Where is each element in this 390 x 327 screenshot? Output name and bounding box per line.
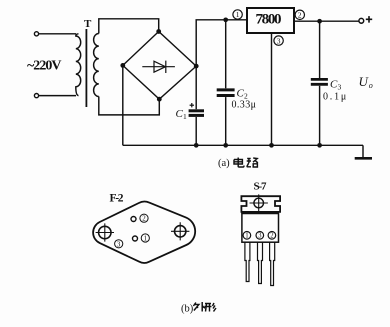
transformer T core bbox=[85, 29, 87, 107]
hanzi lu (road) bbox=[247, 158, 258, 167]
value label 0.33u bbox=[232, 100, 257, 111]
F-2 right mounting hole bbox=[175, 226, 186, 237]
wire: secondary bottom to bridge bottom corner bbox=[99, 97, 160, 115]
S-7 tab mounting hole bbox=[254, 198, 264, 208]
junction: pin3 on rail bbox=[269, 143, 274, 148]
wire: input bottom to primary bbox=[39, 95, 76, 97]
svg-text:F-2: F-2 bbox=[110, 192, 124, 204]
F-2 pin 1 label bbox=[141, 234, 149, 242]
terminal: output + bbox=[359, 18, 364, 23]
package S-7 tab outline (TO-220) bbox=[241, 196, 280, 212]
svg-text:3: 3 bbox=[258, 233, 262, 240]
svg-text:2: 2 bbox=[298, 11, 302, 20]
wire: 7800 pin 3 down to ground rail bbox=[271, 33, 273, 145]
terminal: AC input top bbox=[34, 32, 38, 36]
wire: bridge right corner (DC+) up and right to 7800 pin 1 bbox=[196, 20, 247, 66]
capacitor C1 (electrolytic) bbox=[195, 66, 197, 109]
label C1 bbox=[176, 108, 184, 120]
diode inside bridge bbox=[142, 61, 175, 73]
svg-text:3: 3 bbox=[117, 240, 121, 248]
bridge rectifier outline bbox=[123, 32, 196, 100]
F-2 pin 1 lead bbox=[133, 236, 138, 241]
junction: C2 on rail bbox=[223, 143, 228, 148]
wire: bridge left corner (DC-) down to ground rail bbox=[122, 65, 124, 145]
package S-7 label bbox=[254, 180, 268, 192]
pin 1 label of 7800 bbox=[233, 10, 242, 19]
junction: C3 tap on output bbox=[317, 19, 322, 24]
ground symbol bbox=[362, 145, 364, 157]
F-2 pin 3 label (case) bbox=[115, 240, 123, 248]
svg-text:(a): (a) bbox=[218, 158, 230, 169]
svg-text:2: 2 bbox=[270, 233, 274, 240]
svg-text:S-7: S-7 bbox=[254, 180, 268, 192]
F-2 left mounting hole bbox=[99, 226, 111, 238]
capacitor C3 bbox=[319, 21, 321, 78]
label: T bbox=[84, 18, 92, 30]
pin 2 label of 7800 bbox=[295, 10, 304, 19]
S-7 pin 1 label bbox=[243, 232, 251, 240]
value label 0.1u bbox=[323, 91, 348, 102]
svg-text:1: 1 bbox=[236, 10, 240, 19]
svg-text:3: 3 bbox=[277, 36, 281, 45]
svg-text:0.33μ: 0.33μ bbox=[232, 100, 257, 111]
hanzi dian (electric) bbox=[234, 158, 244, 168]
svg-text:1: 1 bbox=[245, 233, 248, 240]
label C3 bbox=[330, 79, 338, 91]
junction: bridge bottom corner bbox=[157, 97, 162, 102]
hanzi xing (shape) bbox=[205, 303, 217, 312]
package F-2 outline (TO-3) bbox=[93, 201, 195, 263]
svg-text:1: 1 bbox=[183, 112, 187, 121]
svg-text:o: o bbox=[369, 81, 373, 90]
op: regulator U1 7800 box bbox=[247, 8, 294, 33]
svg-text:1: 1 bbox=[144, 235, 148, 243]
label C2 bbox=[237, 88, 245, 100]
polarity + of C1 bbox=[190, 103, 194, 107]
S-7 leg 1 bbox=[245, 242, 250, 281]
junction: bridge right corner bbox=[194, 64, 199, 69]
junction: bridge top corner bbox=[156, 29, 161, 34]
label Uo output voltage bbox=[359, 74, 370, 89]
terminal: AC input bottom bbox=[34, 94, 38, 98]
svg-text:2: 2 bbox=[142, 215, 146, 223]
transformer T primary winding bbox=[76, 34, 81, 96]
S-7 pin 3 label bbox=[256, 232, 264, 240]
S-7 pin 2 label bbox=[268, 232, 276, 240]
junction: C1 on rail bbox=[194, 143, 199, 148]
S-7 body bbox=[242, 213, 279, 242]
svg-text:(b): (b) bbox=[181, 304, 194, 315]
wire: secondary top to bridge AC top rail bbox=[99, 19, 159, 34]
transformer T secondary winding bbox=[94, 34, 99, 97]
junction: C2 tap on DC rail bbox=[223, 17, 228, 22]
wire: input top to primary bbox=[39, 33, 76, 35]
wire: bottom ground rail bbox=[123, 144, 363, 146]
svg-text:7800: 7800 bbox=[256, 11, 282, 27]
label: ~220V bbox=[27, 58, 62, 73]
package F-2 label bbox=[110, 192, 124, 204]
label + output bbox=[366, 16, 372, 23]
junction: C3 on rail bbox=[317, 143, 322, 148]
wire: 7800 output to + terminal bbox=[294, 20, 359, 22]
pin 3 label of 7800 bbox=[274, 36, 283, 45]
svg-text:3: 3 bbox=[338, 83, 342, 92]
svg-text:~220V: ~220V bbox=[27, 58, 62, 73]
hanzi wai (outside) bbox=[193, 302, 205, 312]
caption (a) circuit bbox=[218, 158, 230, 169]
svg-text:0.1μ: 0.1μ bbox=[323, 91, 348, 102]
caption (b) outline bbox=[181, 304, 194, 315]
capacitor C2 bbox=[225, 20, 227, 89]
S-7 leg 3 (middle) bbox=[258, 242, 263, 283]
junction: bridge left corner bbox=[120, 63, 125, 68]
F-2 pin 2 label bbox=[140, 214, 148, 222]
S-7 leg 2 bbox=[270, 242, 275, 285]
F-2 pin 2 lead bbox=[131, 217, 136, 222]
svg-text:T: T bbox=[84, 18, 92, 30]
